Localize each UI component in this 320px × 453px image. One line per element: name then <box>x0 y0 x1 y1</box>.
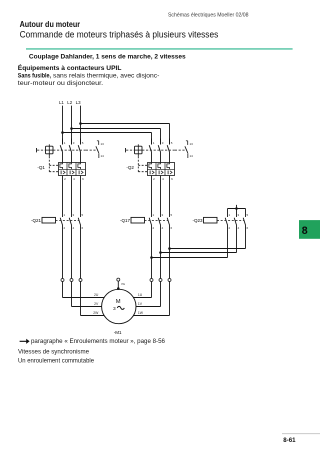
contactor Q17 pin 1 <box>153 213 155 217</box>
teal section rule <box>26 48 293 50</box>
breaker Q2 thermal release pole 2 <box>158 163 161 170</box>
breaker Q1 thermal release pole 1 <box>60 163 63 170</box>
svg-text:1: 1 <box>64 213 66 217</box>
supply label L3 <box>76 100 81 105</box>
junction node L3 branch <box>79 122 82 125</box>
contactor Q21 pole 2 contact <box>69 218 71 226</box>
breaker Q2 aux pin 13 <box>190 142 194 146</box>
svg-text:5: 5 <box>82 213 84 217</box>
motor terminal label 2V <box>94 302 99 306</box>
motor terminal label 1V <box>138 302 143 306</box>
svg-text:4: 4 <box>162 177 164 181</box>
breaker Q1 aux pin 14 <box>101 154 105 158</box>
footer rule <box>282 433 320 435</box>
wire Q23 pole 2 to junction <box>161 226 237 253</box>
svg-text:4: 4 <box>73 177 75 181</box>
svg-text:L1: L1 <box>59 100 64 105</box>
breaker Q1 pole 3 contact <box>78 139 80 163</box>
wire Q21 pole 2 to motor terminal 2V <box>72 226 102 307</box>
breaker Q2 trip line to releases <box>138 156 147 171</box>
svg-text:4: 4 <box>238 226 240 230</box>
wire Q2 to Q17 <box>160 176 162 218</box>
motor 3-phase symbol <box>113 306 124 312</box>
contactor label -Q17 <box>120 218 131 223</box>
svg-text:sans relais thermique, avec di: sans relais thermique, avec disjonc- <box>53 73 159 80</box>
breaker Q2 pole 1 contact <box>149 139 151 163</box>
svg-text:Commande de moteurs triphasés: Commande de moteurs triphasés à plusieur… <box>20 29 219 39</box>
contactor Q17 pin 2 <box>153 226 155 230</box>
wire Q1 to Q21 <box>71 176 73 218</box>
breaker Q2 manual actuator T-bar <box>125 148 127 152</box>
breaker Q2 thermal release pole 3 <box>167 163 170 170</box>
svg-text:paragraphe « Enroulements mote: paragraphe « Enroulements moteur », page… <box>31 339 166 345</box>
paragraph: teur-moteur line <box>18 80 104 87</box>
wire Q2 to Q17 <box>151 176 153 218</box>
contactor Q21 pole 1 contact <box>60 218 62 226</box>
svg-text:2: 2 <box>153 226 155 230</box>
contactor Q21 pin 1 <box>64 213 66 217</box>
contactor Q23 pole 2 contact <box>234 218 236 226</box>
svg-text:1: 1 <box>229 213 231 217</box>
contactor Q23 pin 1 <box>229 213 231 217</box>
breaker Q2 aux pin 14 <box>190 154 194 158</box>
svg-text:2: 2 <box>64 177 66 181</box>
breaker Q1 pole 1 contact <box>60 139 62 163</box>
document title line 2 <box>20 29 219 39</box>
arrow reference symbol <box>20 339 30 344</box>
contactor Q17 pole 3 contact <box>167 218 169 226</box>
contactor Q21 pin 2 <box>64 226 66 230</box>
svg-text:M: M <box>116 299 121 305</box>
svg-text:2: 2 <box>229 226 231 230</box>
contactor Q23 pin 5 <box>247 213 249 217</box>
svg-text:3: 3 <box>162 213 164 217</box>
supply label L2 <box>67 100 72 105</box>
breaker Q1 pin 5 <box>82 141 84 145</box>
breaker Q2 magnetic release I> pole 2 <box>159 171 163 175</box>
svg-text:14: 14 <box>190 154 194 158</box>
breaker Q1 pin 3 <box>73 141 75 145</box>
wire Q23 pole 3 to junction <box>170 226 246 249</box>
breaker Q1 aux pin 13 <box>101 142 105 146</box>
breaker Q2 pin 3 <box>162 141 164 145</box>
wire Q23 bridge to contact <box>227 209 229 218</box>
terminal circle Q21 pole 2 <box>70 278 73 281</box>
svg-text:1: 1 <box>64 141 66 145</box>
terminal circle Q17 pole 1 <box>150 278 153 281</box>
breaker Q1 trip linkage dashed line <box>37 149 98 151</box>
chapter tab green <box>299 220 320 239</box>
breaker Q1 pin 2 <box>64 177 66 181</box>
svg-text:Vitesses de synchronisme: Vitesses de synchronisme <box>18 349 90 355</box>
note line 2 <box>18 359 95 365</box>
breaker Q2 magnetic release I> pole 3 <box>168 171 172 175</box>
svg-text:5: 5 <box>171 141 173 145</box>
contactor Q17 coil box <box>131 217 145 223</box>
breaker Q1 magnetic release I> pole 1 <box>61 171 65 175</box>
wire Q23 bridge to contact <box>236 209 238 218</box>
wire L2 branch to Q2 pole 2 <box>72 129 161 145</box>
wire Q2 to Q17 <box>169 176 171 218</box>
breaker Q2 pin 6 <box>171 177 173 181</box>
svg-text:8: 8 <box>302 225 308 237</box>
svg-text:3: 3 <box>73 213 75 217</box>
contactor Q17 linkage dashed line <box>145 220 169 222</box>
svg-text:6: 6 <box>247 226 249 230</box>
svg-text:13: 13 <box>101 142 105 146</box>
svg-text:2: 2 <box>153 177 155 181</box>
svg-text:13: 13 <box>190 142 194 146</box>
breaker Q1 magnetic release I> pole 3 <box>79 171 83 175</box>
svg-text:3: 3 <box>73 141 75 145</box>
breaker label -Q1 <box>37 165 45 170</box>
breaker Q1 pin 4 <box>73 177 75 181</box>
contactor Q21 pin 4 <box>73 226 75 230</box>
motor terminal label 2W <box>93 311 99 315</box>
breaker Q2 pin 4 <box>162 177 164 181</box>
breaker Q1 pin 6 <box>82 177 84 181</box>
svg-text:2W: 2W <box>93 311 99 315</box>
svg-text:Équipements à contacteurs UPIL: Équipements à contacteurs UPIL <box>18 64 122 72</box>
contactor Q21 pole 3 contact <box>78 218 80 226</box>
contactor Q23 pole 1 contact <box>225 218 227 226</box>
wire L3 branch to Q2 pole 3 <box>81 124 170 145</box>
svg-text:-Q1: -Q1 <box>37 165 45 170</box>
breaker Q1 thermal release pole 2 <box>69 163 72 170</box>
svg-text:3: 3 <box>238 213 240 217</box>
contactor Q23 pin 4 <box>238 226 240 230</box>
junction node on Q23 bridge <box>235 207 238 210</box>
svg-text:-M1: -M1 <box>114 330 122 335</box>
svg-text:6: 6 <box>171 226 173 230</box>
motor terminal label 1W <box>138 311 144 315</box>
contactor Q23 bridge bar <box>228 208 246 210</box>
wire Q23 bridge to contact <box>245 209 247 218</box>
svg-text:-Q17: -Q17 <box>120 218 131 223</box>
contactor Q17 pin 6 <box>171 226 173 230</box>
wire L1 vertical into Q1 <box>62 106 64 145</box>
svg-text:2V: 2V <box>94 302 99 306</box>
breaker Q2 pin 2 <box>153 177 155 181</box>
svg-text:3: 3 <box>113 306 116 312</box>
breaker Q2 releases box <box>148 163 175 176</box>
contactor Q23 pole 3 contact <box>243 218 245 226</box>
page number 8-61 <box>283 437 296 444</box>
breaker Q2 trip linkage dashed line <box>126 149 187 151</box>
junction node Q17/Q23 1 <box>150 256 153 259</box>
wire Q1 to Q21 <box>62 176 64 218</box>
svg-text:L3: L3 <box>76 100 81 105</box>
contactor Q21 linkage dashed line <box>56 220 80 222</box>
svg-text:3: 3 <box>162 141 164 145</box>
svg-text:1: 1 <box>153 213 155 217</box>
svg-text:5: 5 <box>171 213 173 217</box>
svg-text:2U: 2U <box>94 293 99 297</box>
svg-text:L2: L2 <box>67 100 72 105</box>
contactor Q23 linkage dashed line <box>217 220 244 222</box>
motor terminal label 2U <box>94 293 99 297</box>
contactor Q23 coil box <box>204 217 218 223</box>
svg-text:1: 1 <box>153 141 155 145</box>
breaker Q1 pole 2 contact <box>69 139 71 163</box>
motor letter M <box>116 299 121 305</box>
breaker Q1 trip line to releases <box>49 156 58 171</box>
contactor label -Q21 <box>31 218 42 223</box>
contactor Q21 pin 5 <box>82 213 84 217</box>
contactor Q17 pin 3 <box>162 213 164 217</box>
wire Q17 pole 2 to motor terminal 1V <box>136 226 161 307</box>
svg-text:4: 4 <box>73 226 75 230</box>
junction node Q17/Q23 2 <box>159 251 162 254</box>
svg-text:Sans fusible,: Sans fusible, <box>18 73 51 80</box>
wire L3 vertical into Q1 <box>80 106 82 145</box>
svg-text:1W: 1W <box>138 311 144 315</box>
breaker Q1 magnetic release I> pole 2 <box>70 171 74 175</box>
svg-text:PE: PE <box>121 282 125 286</box>
breaker Q2 auxiliary contact 13-14 <box>185 141 188 158</box>
breaker Q2 pin 1 <box>153 141 155 145</box>
breaker Q2 actuator (square with cross) <box>135 144 143 156</box>
svg-text:1V: 1V <box>138 302 143 306</box>
svg-text:Un enroulement commutable: Un enroulement commutable <box>18 359 95 365</box>
wire Q21 pole 3 to motor terminal 2W <box>81 226 105 316</box>
wire Q17 pole 1 to motor terminal 1U <box>133 226 151 298</box>
svg-text:Schémas électriques Moeller 02: Schémas électriques Moeller 02/08 <box>168 13 249 19</box>
reference text <box>31 339 166 345</box>
terminal circle Q21 pole 1 <box>61 278 64 281</box>
svg-text:8-61: 8-61 <box>283 437 296 444</box>
terminal circle Q17 pole 2 <box>159 278 162 281</box>
wire Q21 pole 1 to motor terminal 2U <box>63 226 105 298</box>
motor M1 circle <box>102 289 136 323</box>
breaker Q2 pole 3 contact <box>167 139 169 163</box>
svg-text:14: 14 <box>101 154 105 158</box>
wire L1 branch to Q2 pole 1 <box>63 133 152 145</box>
contactor Q23 pin 6 <box>247 226 249 230</box>
contactor Q23 pin 3 <box>238 213 240 217</box>
wire L2 vertical into Q1 <box>71 106 73 145</box>
svg-text:5: 5 <box>82 141 84 145</box>
breaker Q1 manual actuator T-bar <box>36 148 38 152</box>
chapter tab number 8 <box>302 225 308 237</box>
contactor Q23 star-bridge stub <box>236 205 238 209</box>
motor PE label <box>121 282 125 286</box>
svg-text:-Q21: -Q21 <box>31 218 42 223</box>
terminal circle Q21 pole 3 <box>79 278 82 281</box>
svg-text:Autour du moteur: Autour du moteur <box>20 20 81 29</box>
junction node Q17/Q23 3 <box>168 247 171 250</box>
section header <box>29 53 186 60</box>
svg-text:2: 2 <box>64 226 66 230</box>
svg-text:-Q23: -Q23 <box>192 218 203 223</box>
motor label -M1 <box>114 330 122 335</box>
svg-text:1U: 1U <box>138 293 143 297</box>
contactor Q21 coil box <box>42 217 56 223</box>
supply label L1 <box>59 100 64 105</box>
breaker Q2 thermal release pole 1 <box>149 163 152 170</box>
svg-text:6: 6 <box>82 177 84 181</box>
contactor Q21 pin 3 <box>73 213 75 217</box>
contactor Q23 pin 2 <box>229 226 231 230</box>
breaker Q2 pin 5 <box>171 141 173 145</box>
contactor Q17 pole 2 contact <box>158 218 160 226</box>
contactor Q21 pin 6 <box>82 226 84 230</box>
breaker Q1 actuator (square with cross) <box>46 144 54 156</box>
breaker Q2 pole 2 contact <box>158 139 160 163</box>
motor PE terminal circle <box>117 278 120 281</box>
svg-text:6: 6 <box>171 177 173 181</box>
contactor Q17 pole 1 contact <box>149 218 151 226</box>
breaker Q1 thermal release pole 3 <box>78 163 81 170</box>
contactor Q17 pin 4 <box>162 226 164 230</box>
terminal circle Q17 pole 3 <box>168 278 171 281</box>
wire Q1 to Q21 <box>80 176 82 218</box>
wire Q23 pole 1 to junction <box>152 226 228 258</box>
wire PE terminal to motor <box>117 281 119 289</box>
svg-text:6: 6 <box>82 226 84 230</box>
breaker Q1 pin 1 <box>64 141 66 145</box>
note line 1 <box>18 349 90 355</box>
svg-text:4: 4 <box>162 226 164 230</box>
junction node L2 branch <box>70 127 73 130</box>
wire Q17 pole 3 to motor terminal 1W <box>133 226 169 316</box>
contactor Q17 pin 5 <box>171 213 173 217</box>
junction node L1 branch <box>61 131 64 134</box>
breaker Q1 releases box <box>59 163 86 176</box>
svg-text:teur-moteur ou disjoncteur.: teur-moteur ou disjoncteur. <box>18 80 104 87</box>
motor terminal label 1U <box>138 293 143 297</box>
document title line 1 <box>20 20 81 29</box>
svg-text:5: 5 <box>247 213 249 217</box>
svg-text:-Q2: -Q2 <box>126 165 134 170</box>
svg-text:Couplage Dahlander, 1 sens de: Couplage Dahlander, 1 sens de marche, 2 … <box>29 53 186 60</box>
breaker Q2 magnetic release I> pole 1 <box>150 171 154 175</box>
page header: catalog title <box>168 13 249 19</box>
breaker Q1 auxiliary contact 13-14 <box>96 141 99 158</box>
contactor label -Q23 <box>192 218 203 223</box>
breaker label -Q2 <box>126 165 134 170</box>
paragraph: equipment bold line <box>18 64 122 72</box>
junction node motor top <box>117 287 120 290</box>
paragraph: sans fusible line <box>18 73 160 80</box>
